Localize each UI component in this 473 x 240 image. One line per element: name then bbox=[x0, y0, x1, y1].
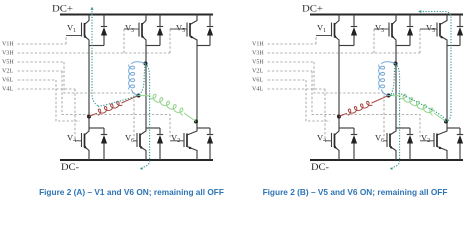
svg-text:Figure 2 (A) – V1 and V6 ON; r: Figure 2 (A) – V1 and V6 ON; remaining a… bbox=[39, 187, 224, 197]
svg-text:Figure 2 (B) – V5 and V6 ON; r: Figure 2 (B) – V5 and V6 ON; remaining a… bbox=[263, 187, 448, 197]
